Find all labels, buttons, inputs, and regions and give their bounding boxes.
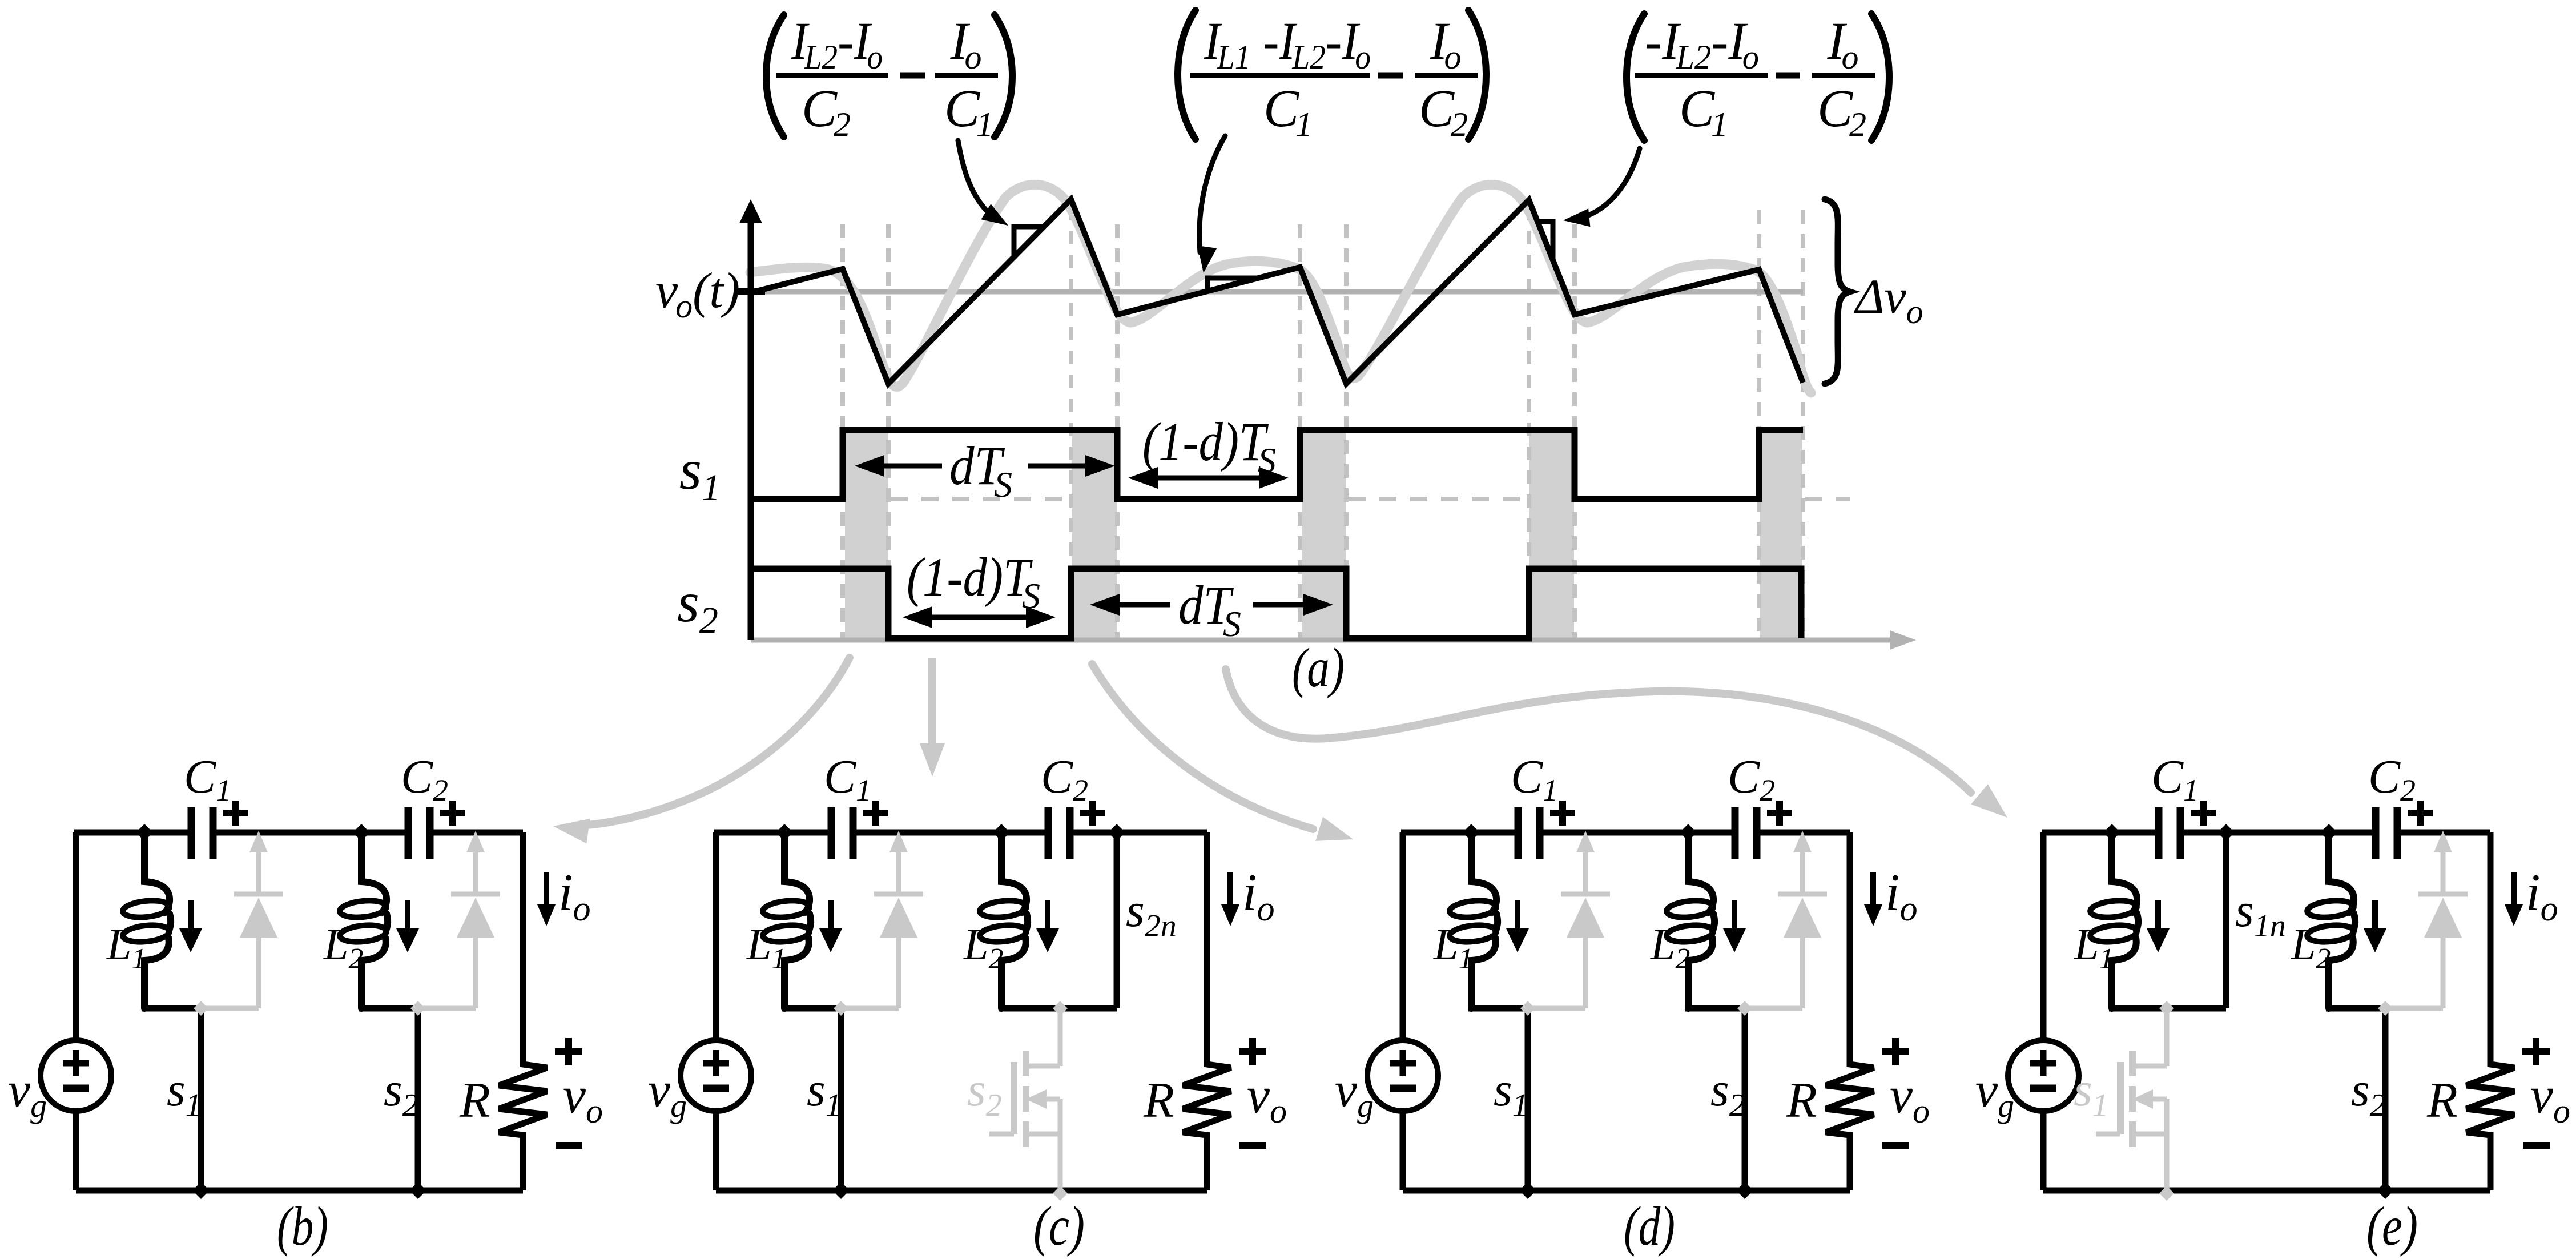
wire: jog L1 to s1n (e) [2109, 1005, 2226, 1012]
node s1n top (e) [2217, 824, 2235, 841]
node s1 bottom (d) [1519, 1182, 1536, 1199]
pointer arrow from F3 [1580, 148, 1640, 218]
dashed gridline x=1957 [1115, 224, 1120, 638]
fan arrow to (d) [1092, 664, 1313, 829]
s1 dashed baseline segment 1 [891, 497, 1069, 501]
diode D1 (off) (d) [1583, 851, 1588, 894]
wire: bottom rail (e) [2043, 1188, 2490, 1194]
s2 waveform [752, 569, 1801, 638]
dashed gridline x=2277 [1298, 224, 1302, 638]
dashed gridline x=2678 [1527, 207, 1531, 638]
svg-text:(1-d)TS: (1-d)TS [907, 546, 1040, 616]
svg-text:R: R [2426, 1073, 2458, 1128]
dashed gridline x=1476 [840, 224, 845, 638]
current arrow L2 (d) [1732, 900, 1737, 931]
plus mark C1 (d) [1550, 801, 1575, 826]
time axis (gray) [751, 638, 1895, 643]
wire: bottom rail (b) [76, 1188, 523, 1194]
wire: jog L1 to s1 (d) [1468, 1005, 1531, 1012]
wire: left rail (c) [713, 832, 719, 1040]
pointer arrow from F2 [1200, 136, 1225, 252]
current arrow L1 (b) [188, 900, 194, 931]
current arrow L2 (c) [1045, 900, 1050, 931]
minus vo (d) [1882, 1142, 1909, 1149]
brace for delta vo [1825, 199, 1850, 384]
switch wire s2 (d) [1742, 1008, 1748, 1190]
inductor L2 (d) [1688, 832, 1713, 912]
dashed gridline x=2358 [1344, 224, 1349, 638]
plus mark C1 (b) [223, 801, 248, 826]
dead-time band 4 [1529, 431, 1574, 639]
s2 dTs arrow [1097, 602, 1170, 608]
minus vo (b) [556, 1142, 582, 1149]
wire: top rail (c) [714, 830, 1207, 836]
node at L2 top (c) [993, 824, 1010, 841]
node s2 bottom (d) [1736, 1182, 1753, 1199]
wire: jog L1 to s1 (c) [782, 1005, 844, 1012]
plus mark C2 (d) [1767, 801, 1792, 826]
wire: left rail (b) [73, 832, 79, 1040]
s1 (1-d)Ts arrow [1136, 476, 1281, 481]
switch wire s1 (d) [1525, 1008, 1531, 1190]
resistor R (b) [499, 832, 547, 1190]
node s1 bottom (c) [832, 1182, 850, 1199]
wire: bottom rail (d) [1403, 1188, 1850, 1194]
dashed gridline x=1556 [886, 224, 891, 638]
capacitor C1 (d) [1522, 828, 1536, 837]
inductor L1 (b) [144, 832, 170, 912]
switch wire s2 (e) [2382, 1008, 2389, 1190]
node s2n top (c) [1108, 824, 1125, 841]
wire: jog L2 to s2 (d) [1685, 1005, 1748, 1012]
node at L1 top (c) [776, 824, 793, 841]
fan arrow to (b) [587, 658, 850, 825]
wire: left rail lower (b) [73, 1111, 79, 1190]
capacitor C2 (c) [1052, 828, 1066, 837]
current arrow L2 (e) [2372, 900, 2378, 931]
inductor L1 (d) [1471, 832, 1496, 912]
plus mark C2 (c) [1080, 801, 1105, 826]
diode D1 (off) (b) [256, 851, 261, 894]
svg-text:(d): (d) [1624, 1196, 1675, 1257]
wire: top rail (d) [1401, 830, 1850, 836]
svg-text:(c): (c) [1033, 1196, 1085, 1257]
wire: bottom rail (c) [716, 1188, 1207, 1194]
inductor L1 (c) [784, 832, 810, 912]
capacitor C1 (e) [2162, 828, 2177, 837]
formula F3: (-IL2-Io)/C1 - Io/C2 [1627, 12, 1889, 143]
diode D1 (off) (c) [896, 851, 901, 894]
voltage source vg (b) [41, 1040, 111, 1111]
diode D2 (off) (e) [2441, 851, 2446, 894]
switch wire s1 (c) [838, 1008, 844, 1190]
plus mark C2 (b) [440, 801, 465, 826]
output current io (e) [2511, 872, 2517, 906]
plus vo (e) [2522, 1038, 2550, 1065]
output current io (b) [544, 872, 549, 906]
pointer arrow from F1 [958, 140, 996, 219]
wire: jog L2 to s2 (b) [359, 1005, 421, 1012]
capacitor C2 (e) [2379, 828, 2394, 837]
capacitor C2 (d) [1738, 828, 1753, 837]
dashed gridline x=1876 [1069, 207, 1073, 638]
wire: left rail lower (d) [1400, 1111, 1406, 1190]
current arrow L1 (d) [1515, 900, 1520, 931]
node at L2 top (d) [1680, 824, 1697, 841]
svg-text:(1-d)TS: (1-d)TS [1142, 411, 1276, 481]
wire: jog L1 to s1 (b) [142, 1005, 204, 1012]
dead-time band 5 [1760, 431, 1802, 639]
current arrow L2 (b) [405, 900, 410, 931]
wire: top rail (b) [74, 830, 523, 836]
resistor R (c) [1183, 832, 1231, 1190]
vertical axis [748, 223, 754, 640]
svg-text:R: R [1143, 1073, 1174, 1128]
current arrow L1 (e) [2155, 900, 2161, 931]
minus vo (c) [1239, 1142, 1266, 1149]
wire s1n (e) [2223, 832, 2229, 1008]
output voltage waveform vo(t) [752, 199, 1803, 384]
dead-time band 1 [845, 431, 888, 639]
wire: left rail lower (c) [713, 1111, 719, 1190]
voltage source vg (e) [2008, 1040, 2079, 1111]
s2 (1-d)Ts arrow [910, 615, 1048, 620]
plus vo (b) [555, 1038, 582, 1065]
plus vo (c) [1239, 1038, 1266, 1065]
slope mark 3 [1537, 222, 1553, 260]
wire: jog L2 to s2n (c) [999, 1005, 1117, 1012]
slope mark 1 [1014, 227, 1045, 259]
plus vo (d) [1882, 1038, 1909, 1065]
inductor L2 (c) [1001, 832, 1027, 912]
axis tick at mean level [737, 288, 765, 295]
inductor L2 (b) [361, 832, 387, 912]
fan arrow to (c) [928, 658, 936, 743]
wire: left rail lower (e) [2040, 1111, 2047, 1190]
node s2 bottom (b) [409, 1182, 426, 1199]
node at L1 top (d) [1463, 824, 1480, 841]
s1 dashed baseline segment 3 [1805, 497, 1850, 501]
node s2 bottom (e) [2377, 1182, 2394, 1199]
output current io (c) [1227, 872, 1233, 906]
minus vo (e) [2523, 1142, 2550, 1149]
capacitor C1 (c) [835, 828, 850, 837]
switch wire s2 (b) [415, 1008, 421, 1190]
node at L1 top (b) [136, 824, 153, 841]
switch s2 MOSFET (off) (c) [1053, 1001, 1068, 1016]
diode D2 (off) (b) [473, 851, 478, 894]
svg-text:R: R [1786, 1073, 1817, 1128]
diode D2 (off) (d) [1800, 851, 1805, 894]
dead-time band 3 [1302, 431, 1346, 639]
dashed gridline x=3158 [1801, 210, 1805, 638]
wire s2n (c) [1114, 832, 1120, 1008]
inductor L2 (e) [2329, 832, 2354, 912]
s1 dTs arrow [862, 464, 942, 469]
svg-text:R: R [459, 1073, 490, 1128]
slope mark 2 [1207, 278, 1258, 291]
dashed gridline x=2758 [1572, 224, 1577, 638]
plus mark C1 (c) [863, 801, 888, 826]
s1 dashed baseline segment 2 [1349, 497, 1527, 501]
switch wire s1 (b) [198, 1008, 204, 1190]
inductor L1 (e) [2112, 832, 2137, 912]
plus mark C2 (e) [2408, 801, 2433, 826]
vo mean line (gray) [751, 289, 1803, 295]
resistor R (e) [2466, 832, 2514, 1190]
switch s1 MOSFET (off) (e) [2159, 1001, 2174, 1016]
dead-time band 2 [1072, 431, 1117, 639]
plus mark C1 (e) [2191, 801, 2216, 826]
capacitor C2 (b) [412, 828, 426, 837]
node at L1 top (e) [2103, 824, 2120, 841]
svg-text:(e): (e) [2366, 1196, 2418, 1257]
svg-text:(b): (b) [277, 1196, 328, 1257]
wire: jog L2 to s2 (e) [2326, 1005, 2388, 1012]
s1 waveform [752, 430, 1803, 499]
dashed gridline x=3081 [1757, 210, 1761, 638]
formula F2: (IL1-IL2-Io)/C1 - Io/C2 [1178, 10, 1486, 143]
wire: left rail (e) [2040, 832, 2047, 1040]
fan arrow to (e) [1226, 669, 1971, 793]
node s1 bottom (b) [192, 1182, 210, 1199]
capacitor C1 (b) [195, 828, 210, 837]
svg-text:(a): (a) [1292, 637, 1345, 699]
smooth output voltage curve (gray) [750, 184, 1811, 393]
voltage source vg (d) [1367, 1040, 1438, 1111]
output current io (d) [1870, 872, 1876, 906]
node at L2 top (b) [353, 824, 370, 841]
wire: top rail (e) [2042, 830, 2490, 836]
current arrow L1 (c) [828, 900, 834, 931]
voltage source vg (c) [681, 1040, 751, 1111]
formula F1: (IL2-Io)/C2 - Io/C1 [766, 12, 1012, 143]
wire: left rail (d) [1400, 832, 1406, 1040]
svg-text:vo(t): vo(t) [655, 263, 740, 325]
node at L2 top (e) [2320, 824, 2337, 841]
resistor R (d) [1826, 832, 1874, 1190]
